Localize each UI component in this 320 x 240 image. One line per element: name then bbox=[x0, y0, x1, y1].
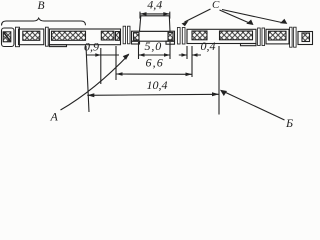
dimension 4,4 line bbox=[140, 12, 170, 19]
right box 1 outline bbox=[187, 29, 256, 43]
С arrow 3 bbox=[222, 10, 284, 24]
box A crosshatch bbox=[23, 31, 40, 40]
box B crosshatch 1 bbox=[52, 31, 86, 40]
svg-text:А: А bbox=[50, 110, 59, 124]
center base block bbox=[132, 31, 175, 41]
center raised block bbox=[140, 16, 171, 31]
box B outline bbox=[49, 29, 120, 45]
svg-text:С: С bbox=[212, 0, 220, 11]
gap plates 3 bbox=[258, 28, 261, 46]
svg-text:5,0: 5,0 bbox=[145, 39, 163, 53]
far right hatch blob bbox=[302, 33, 310, 42]
right box 1 crosshatch b bbox=[220, 31, 253, 40]
С arrow 2 bbox=[220, 10, 251, 24]
right box 2 crosshatch bbox=[269, 31, 287, 40]
svg-text:10,4: 10,4 bbox=[147, 78, 168, 92]
dimension 10,4 line bbox=[87, 94, 219, 95]
extension line 0,9/10,4 left bbox=[86, 46, 89, 112]
extension line 10,4 right bbox=[218, 46, 220, 115]
gap plates 1 (left of center) bbox=[123, 26, 126, 44]
leader А bbox=[61, 55, 129, 111]
screw slot square bbox=[3, 32, 11, 42]
box B tab below left bbox=[49, 45, 66, 47]
extension line 0,4 left bbox=[186, 46, 188, 59]
right box 1 tab below bbox=[241, 44, 257, 46]
base hatched square right bbox=[168, 32, 173, 40]
dimension 0,4 arrows bbox=[179, 54, 201, 56]
dimension 6,6 line bbox=[116, 73, 192, 75]
base tab below right bbox=[166, 41, 175, 44]
svg-text:0,9: 0,9 bbox=[84, 40, 99, 54]
gap plates 2 (right of center) bbox=[177, 28, 180, 45]
box A outline bbox=[19, 29, 44, 45]
box B crosshatch 2 bbox=[101, 31, 114, 40]
box B narrow hatched bar bbox=[116, 32, 120, 41]
thin bar between box A and box B bbox=[46, 27, 49, 46]
dimension 5,0 line bbox=[139, 42, 171, 59]
svg-text:0,4: 0,4 bbox=[201, 39, 216, 53]
screw slot diagonal bbox=[3, 32, 10, 42]
brace under В bbox=[2, 18, 86, 25]
svg-text:6,6: 6,6 bbox=[146, 55, 164, 69]
screw head (left end) bbox=[2, 28, 15, 47]
far right small box bbox=[298, 32, 313, 45]
base tab below left bbox=[132, 41, 140, 44]
gap plates 4 bbox=[290, 27, 293, 47]
С arrow 1 bbox=[185, 9, 211, 22]
extension line 0,4/6,6 right bbox=[191, 46, 193, 77]
spacer bar 1 bbox=[16, 27, 20, 47]
right box 1 crosshatch a bbox=[192, 31, 207, 40]
right box 2 outline bbox=[266, 29, 289, 44]
svg-text:4,4: 4,4 bbox=[147, 0, 162, 12]
extension line 6,6 left bbox=[115, 46, 117, 80]
base hatched square left bbox=[134, 33, 140, 40]
extension line 0,9 right bbox=[100, 48, 102, 84]
svg-text:Б: Б bbox=[285, 116, 293, 130]
svg-text:В: В bbox=[38, 0, 45, 12]
leader Б bbox=[223, 91, 285, 120]
dimension 0,9 line bbox=[86, 54, 119, 56]
